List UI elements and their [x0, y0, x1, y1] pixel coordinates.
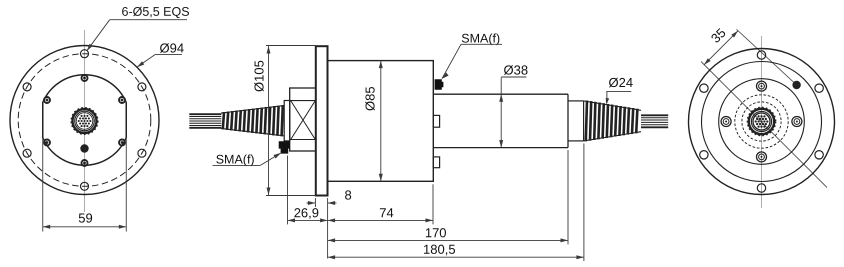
right view bolt hole 5	[815, 151, 823, 159]
D38 underline	[501, 76, 526, 78]
left boot corrugation ribs	[223, 105, 283, 136]
right view 45deg line through top hole to index pin	[737, 29, 794, 82]
74 right extension	[432, 184, 434, 224]
right boot top edge	[584, 101, 641, 110]
right view bolt hole 3	[700, 151, 708, 159]
left view flange outer circle (D105)	[10, 46, 159, 195]
right view black index pin	[792, 81, 800, 89]
left view bolt hole 2 (D5.5)	[23, 83, 31, 91]
ext line at flange right face	[327, 198, 329, 259]
74 right arrow	[426, 218, 434, 222]
svg-text:6-Ø5,5 EQS: 6-Ø5,5 EQS	[121, 5, 189, 19]
rotor shaft section	[290, 88, 316, 151]
svg-text:170: 170	[425, 225, 447, 240]
59 dim right extension line	[125, 138, 127, 232]
right view bolt hole 1	[757, 51, 765, 59]
left boot top edge	[221, 106, 284, 114]
SMA(f) top leader arrow	[442, 73, 449, 79]
left view bolt hole 6 (D5.5)	[138, 83, 146, 91]
left view black index pin	[80, 144, 88, 152]
shaft inner top line	[290, 100, 316, 102]
35 dimension line	[704, 31, 738, 65]
74 left arrow	[328, 218, 336, 222]
left view screw 3	[44, 97, 50, 103]
svg-text:SMA(f): SMA(f)	[461, 32, 500, 46]
svg-text:Ø24: Ø24	[608, 75, 633, 90]
svg-text:Ø85: Ø85	[363, 86, 378, 111]
svg-text:Ø105: Ø105	[252, 60, 267, 92]
right view vertical centerline	[761, 36, 763, 208]
right view screw 3	[721, 117, 731, 127]
D38 top arrow	[499, 94, 503, 102]
SMA(f) top underline	[461, 43, 502, 45]
SMA(f) bottom leader diagonal	[260, 153, 280, 165]
59 dim left extension line	[42, 138, 44, 232]
D85 top arrow	[379, 61, 383, 69]
svg-text:26,9: 26,9	[294, 205, 319, 220]
D94 leader arrow	[137, 61, 144, 67]
180,5 right extension	[583, 144, 585, 262]
right collar ring	[568, 101, 584, 141]
8 dim left extension	[314, 198, 316, 207]
stator flange plate (D105, 8 thick)	[316, 46, 328, 195]
D38 dimension line	[500, 78, 502, 148]
middle view left cable wires	[189, 114, 221, 128]
right face connector bump 1	[433, 115, 439, 127]
left view bolt circle D94 (dashed)	[18, 54, 151, 187]
D85 dimension line	[380, 61, 382, 182]
right view screw 2	[757, 152, 767, 162]
180,5 right arrow	[576, 255, 584, 259]
SMA(f) bottom underline	[213, 164, 261, 166]
right boot corrugation ribs	[586, 101, 638, 142]
170 left arrow	[328, 238, 336, 242]
right view screw 1	[757, 81, 767, 91]
svg-text:SMA(f): SMA(f)	[216, 153, 255, 167]
D105 bottom extension line	[266, 195, 316, 197]
left view screw 2	[82, 160, 88, 166]
right view bolt hole 6	[815, 84, 823, 92]
right view screw 4	[792, 117, 802, 127]
6-D5.5 leader diagonal	[87, 20, 109, 51]
left view rotor body circle with flats (59 across)	[43, 75, 127, 165]
left view screw 1	[82, 75, 88, 81]
26,9 left arrow	[288, 218, 296, 222]
74 dimension line	[328, 219, 433, 221]
6-D5.5 leader arrow	[87, 44, 93, 51]
SMA(f) bottom leader arrow	[274, 153, 282, 159]
right view bolt hole 4	[757, 184, 765, 192]
right view circle D60	[719, 79, 805, 165]
D24 leader underline	[606, 91, 631, 93]
170 right arrow	[561, 238, 569, 242]
35 dim lower arrow	[704, 58, 711, 65]
stator SMA connector (black, top)	[435, 79, 444, 89]
8 dim right arrow+tail	[328, 201, 337, 205]
svg-text:8: 8	[344, 188, 351, 203]
D105 top extension line	[266, 45, 316, 47]
left view bolt hole 5 (D5.5)	[138, 149, 146, 157]
left boot clamp ring	[284, 101, 290, 141]
D105 top arrow	[267, 46, 271, 54]
26,9 right arrow	[320, 218, 328, 222]
left view vertical centerline	[84, 30, 86, 212]
right boot bottom edge	[584, 132, 641, 141]
middle view right cable wires	[641, 115, 668, 127]
35 dim upper arrow	[731, 31, 738, 38]
26,9 left extension (clamp)	[287, 156, 289, 225]
D105 bottom arrow	[267, 188, 271, 196]
svg-text:59: 59	[78, 210, 92, 225]
D105 dimension line	[268, 46, 270, 195]
svg-text:74: 74	[379, 205, 393, 220]
right face connector bump 2	[433, 157, 439, 168]
180,5 left arrow	[328, 255, 336, 259]
D24 leader arrow	[606, 98, 610, 105]
180,5 dimension line	[328, 256, 584, 258]
right view circle D85	[702, 62, 822, 182]
right view connector flange ring outer	[735, 95, 788, 148]
rotor SMA connector (black, bottom)	[279, 141, 290, 153]
svg-text:Ø38: Ø38	[503, 63, 528, 78]
D24 leader diagonal	[606, 92, 608, 103]
left view bolt hole 3 (D5.5)	[23, 149, 31, 157]
8 dim left arrow+tail	[307, 201, 316, 205]
shaft cross brace X	[291, 101, 316, 140]
left view screw 4	[119, 97, 125, 103]
svg-text:180,5: 180,5	[423, 242, 456, 257]
left view bolt hole 4 (D5.5)	[81, 182, 89, 190]
right view 45deg centerline through center	[701, 62, 827, 188]
left view screw 6	[119, 140, 125, 146]
6-D5.5 leader underline	[110, 19, 187, 21]
left boot bottom edge	[221, 128, 284, 135]
26,9 dimension line	[288, 219, 328, 221]
left view screw 5	[44, 140, 50, 146]
D94 leader diagonal	[138, 55, 156, 67]
170 dimension line	[328, 239, 568, 241]
main housing body (D85)	[328, 61, 434, 182]
left view bolt hole 1 (D5.5)	[81, 50, 89, 58]
D38 bottom arrow	[499, 140, 503, 148]
right view connector flange ring inner	[742, 102, 781, 141]
stator cylinder D38	[433, 94, 568, 147]
right view central multi-pin connector	[748, 108, 776, 136]
170 right extension	[567, 150, 569, 244]
59 dim left arrow	[43, 225, 50, 229]
right view bolt hole 2	[700, 84, 708, 92]
left view central multi-pin connector	[71, 108, 97, 134]
D85 bottom arrow	[379, 174, 383, 182]
svg-text:Ø94: Ø94	[159, 41, 184, 56]
shaft inner bottom line	[290, 139, 316, 141]
SMA(f) top leader diagonal	[442, 44, 461, 78]
right view outer circle	[689, 49, 835, 195]
59 dim right arrow	[119, 225, 126, 229]
D94 leader underline	[155, 54, 182, 56]
59 dimension line	[43, 226, 127, 228]
